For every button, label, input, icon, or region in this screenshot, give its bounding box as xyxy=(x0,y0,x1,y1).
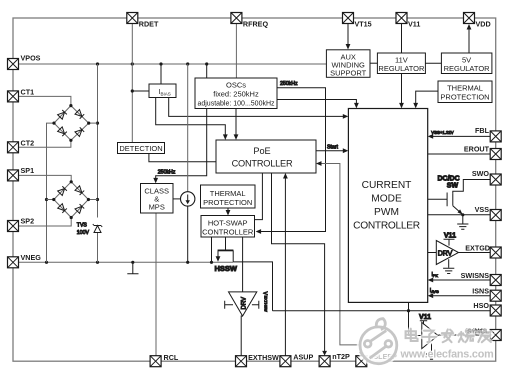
svg-text:CONTROLLER: CONTROLLER xyxy=(232,159,293,169)
wire sync buffer to SYNCL pin xyxy=(438,334,490,337)
pin EXTHSW xyxy=(236,353,280,367)
pin V11 xyxy=(396,13,420,29)
svg-text:100V: 100V xyxy=(77,230,90,236)
svg-text:EXTGD: EXTGD xyxy=(465,244,490,253)
pin SP2 xyxy=(8,217,35,232)
wire HOT-SWAP to EXTHSW driver xyxy=(242,237,244,292)
pin EXTGD xyxy=(465,244,501,259)
pin FBL xyxy=(475,126,501,142)
block 5V REGULATOR xyxy=(441,53,492,74)
wire VNEG rail xyxy=(19,261,234,263)
node RDET-IBIAS junction xyxy=(131,89,134,92)
wire PWM to DRV EXTGD xyxy=(428,252,437,254)
svg-text:SWISNS: SWISNS xyxy=(461,271,490,280)
wire bridge2 left link xyxy=(47,199,54,201)
pin VPOS xyxy=(8,54,41,70)
block OSC oscillators xyxy=(195,78,277,109)
block 11V REGULATOR xyxy=(377,53,425,74)
svg-text:PWM: PWM xyxy=(374,207,399,218)
svg-text:RFREQ: RFREQ xyxy=(243,20,269,29)
wire OSC right to PWM top arrow xyxy=(277,100,356,105)
wire current source to VNEG rail xyxy=(187,206,189,262)
node VNEG-rail junctions xyxy=(45,261,213,264)
svg-text:250kHz: 250kHz xyxy=(158,170,176,176)
wire bridge1 right link xyxy=(89,122,98,124)
pin RCL xyxy=(150,353,179,367)
block THERMAL PROTECTION top-right xyxy=(438,81,492,103)
svg-text:DRV: DRV xyxy=(438,250,453,257)
wire DRV to EXTGD pin xyxy=(459,252,491,254)
wire HSSW drain to HSO line xyxy=(233,262,272,311)
svg-text:adjustable: 100...500kHz: adjustable: 100...500kHz xyxy=(197,101,275,108)
transistor HSSW drain xyxy=(232,250,234,262)
pin SWISNS xyxy=(461,271,502,286)
pin ISNS xyxy=(472,287,501,302)
wire SP2 to bridge2 xyxy=(19,218,72,227)
svg-text:250kHz: 250kHz xyxy=(280,81,298,87)
pin SP1 xyxy=(8,166,35,181)
wire EROUT to PWM xyxy=(428,153,491,155)
pin EROUT xyxy=(464,145,501,160)
op-amp sync buffer xyxy=(422,322,438,348)
ground stub on VNEG rail xyxy=(127,262,138,273)
pin nSLEEP xyxy=(356,352,397,367)
block THERMAL PROTECTION middle xyxy=(201,185,256,208)
svg-text:CT1: CT1 xyxy=(21,88,35,97)
svg-text:HOT-SWAP: HOT-SWAP xyxy=(208,219,248,228)
transistor HSSW gate bar xyxy=(218,249,234,251)
svg-text:FBL: FBL xyxy=(475,126,490,135)
svg-text:HSSW: HSSW xyxy=(215,264,238,273)
block HOT-SWAP CONTROLLER xyxy=(201,216,255,238)
wire RFREQ to OSC xyxy=(235,24,237,79)
wire 11V regulator to PWM arrow xyxy=(401,74,403,105)
wire FBL to PWM arrow xyxy=(432,135,490,137)
wire HOT-SWAP to VNEG rail xyxy=(211,237,213,262)
svg-text:PK: PK xyxy=(433,274,439,278)
svg-text:REGULATOR: REGULATOR xyxy=(378,64,425,73)
svg-text:SP1: SP1 xyxy=(21,166,35,175)
svg-text:www.elecfans.com: www.elecfans.com xyxy=(400,349,494,361)
wire THERMAL top to PWM arrow xyxy=(416,91,438,104)
svg-text:SWO: SWO xyxy=(472,169,490,178)
svg-text:ISNS: ISNS xyxy=(472,287,489,296)
wire IBIAS out2 to PWM left arrow xyxy=(169,98,344,117)
svg-text:EXTHSW: EXTHSW xyxy=(248,353,279,362)
svg-text:V11: V11 xyxy=(419,314,431,321)
svg-text:fixed: 250kHz: fixed: 250kHz xyxy=(213,90,259,99)
svg-text:VPOS: VPOS xyxy=(21,54,41,63)
block DETECTION xyxy=(118,143,165,154)
wire 11V to 5V regulator xyxy=(425,62,441,64)
svg-text:AVG: AVG xyxy=(431,290,439,294)
svg-text:EXTHSW: EXTHSW xyxy=(263,296,267,313)
svg-text:HSO: HSO xyxy=(473,301,489,310)
wire VPOS rail to AUX xyxy=(19,63,327,65)
diode bridge 1 xyxy=(54,106,89,141)
svg-text:VDD: VDD xyxy=(476,20,491,29)
pin VNEG xyxy=(8,253,42,268)
wire bridge2 right link xyxy=(88,199,97,201)
ground below DRV xyxy=(448,259,450,268)
node VSS junction xyxy=(461,213,464,216)
wire SP1 to bridge2 xyxy=(19,175,72,181)
transistor DC/DC SW mosfet xyxy=(428,193,453,207)
svg-text:PoE: PoE xyxy=(253,146,270,156)
wire PWM bottom to sync buffer xyxy=(409,302,422,335)
svg-text:SP2: SP2 xyxy=(21,217,35,226)
svg-text:V11: V11 xyxy=(444,232,456,239)
block IBIAS current bias xyxy=(149,84,176,98)
svg-text:SUPPORT: SUPPORT xyxy=(330,68,367,77)
svg-text:CONTROLLER: CONTROLLER xyxy=(353,221,420,232)
svg-text:CT2: CT2 xyxy=(21,138,35,147)
block CURRENT MODE PWM CONTROLLER xyxy=(348,109,427,303)
svg-text:MPS: MPS xyxy=(149,203,165,212)
pin VT15 xyxy=(343,13,372,29)
wire 5V regulator to VDD arrow up xyxy=(468,28,470,53)
watermark elecfans logo and text xyxy=(360,319,494,364)
pin ASUP xyxy=(280,353,314,367)
svg-text:VSS: VSS xyxy=(475,205,490,214)
wire DETECTION to PoE xyxy=(149,154,216,162)
wire rail to OSC top xyxy=(206,64,208,78)
watermark chinese glyphs drawn as strokes xyxy=(406,329,491,343)
wire HSO line xyxy=(273,310,491,312)
svg-text:ASUP: ASUP xyxy=(293,353,313,362)
svg-text:RCL: RCL xyxy=(164,353,179,362)
svg-text:Start: Start xyxy=(327,144,339,150)
svg-text:EROUT: EROUT xyxy=(464,145,490,154)
pin SWO xyxy=(472,169,501,185)
wire SWO to DCDC switch xyxy=(453,180,490,194)
svg-text:DETECTION: DETECTION xyxy=(119,144,162,153)
svg-text:SW: SW xyxy=(447,182,459,189)
svg-text:VSS+1.32V: VSS+1.32V xyxy=(431,130,453,135)
current source I circle xyxy=(181,192,195,206)
wire CLASS to current source xyxy=(173,198,181,200)
svg-text:THERMAL: THERMAL xyxy=(210,189,246,198)
wire VPOS to current source xyxy=(187,64,189,192)
wire IBIAS left xyxy=(132,90,149,92)
svg-text:PROTECTION: PROTECTION xyxy=(440,93,489,102)
svg-text:V11: V11 xyxy=(408,20,420,29)
node VPOS-rail junctions xyxy=(96,62,208,65)
wire bridge left column to VNEG xyxy=(47,123,55,262)
node HSO junction xyxy=(407,309,410,312)
wire IBIAS out1 to PoE arrow xyxy=(156,98,226,136)
wire PoE bottom to nT2P arrow xyxy=(272,173,325,352)
block AUX WINDING SUPPORT xyxy=(326,50,370,78)
svg-text:RDET: RDET xyxy=(139,20,159,29)
wire IBIAS top xyxy=(160,64,162,84)
transistor HSSW source arrow to rail xyxy=(217,250,219,257)
diode bridge 2 xyxy=(54,182,89,218)
wire CT2 to bridge1 xyxy=(19,140,71,147)
pin SYNCL xyxy=(465,327,501,341)
wire OSC 250kHz to HOT-SWAP arrow xyxy=(260,88,326,232)
svg-text:DRV: DRV xyxy=(242,297,248,310)
pin nT2P xyxy=(319,352,350,367)
svg-text:BIAS: BIAS xyxy=(161,92,171,97)
pin VSS xyxy=(475,205,502,221)
wire V11 to 11V regulator xyxy=(401,24,403,54)
wire Start PoE to PWM arrow xyxy=(316,150,344,152)
svg-text:5V: 5V xyxy=(462,55,471,64)
pin CT1 xyxy=(8,88,35,102)
wire CT1 to bridge1 xyxy=(19,96,71,105)
wire nSLEEP net to PoE arrow xyxy=(320,164,361,356)
block CLASS & MPS xyxy=(141,184,174,214)
wire SWISNS to PWM arrow xyxy=(432,279,490,281)
wire RDET vertical to DETECTION xyxy=(131,24,133,143)
wire VPOS column x97 xyxy=(97,64,99,262)
pin VDD xyxy=(464,13,491,29)
ground below VSS node xyxy=(462,215,464,224)
svg-text:VT15: VT15 xyxy=(355,20,372,29)
wire V11 tee to DRV xyxy=(444,239,455,245)
op-amp DRV EXTHSW triangle down xyxy=(229,292,257,316)
svg-text:OSCs: OSCs xyxy=(226,80,246,89)
wire DRV side tick right VEXTHSW xyxy=(252,301,259,309)
svg-text:nT2P: nT2P xyxy=(332,352,350,361)
svg-text:11V: 11V xyxy=(395,55,408,64)
wire DRV to EXTHSW pin xyxy=(241,316,242,356)
svg-text:CURRENT: CURRENT xyxy=(362,180,412,191)
svg-text:CONTROLLER: CONTROLLER xyxy=(202,228,254,237)
wire CLASS MPS to RCL xyxy=(155,213,157,356)
wire AUX to 11V regulator xyxy=(370,62,377,64)
wire OSC bottom to PoE arrow xyxy=(235,109,237,136)
wire VSS line xyxy=(428,214,491,216)
node bridge2 left xyxy=(45,198,48,201)
wire THERMAL mid to HOT-SWAP arrow xyxy=(227,208,229,211)
pin HSO xyxy=(473,301,501,316)
wire HSSW gate xyxy=(225,237,227,250)
wire ISNS to PWM arrow xyxy=(432,295,490,297)
pin RFREQ xyxy=(231,13,269,29)
svg-text:PROTECTION: PROTECTION xyxy=(203,198,252,207)
diode TVS zener xyxy=(93,224,102,233)
svg-text:SYNCL: SYNCL xyxy=(467,329,489,336)
wire ASUP to PoE arrow up xyxy=(284,177,286,356)
pin RDET xyxy=(127,13,159,29)
op-amp DRV EXTGD xyxy=(436,241,458,265)
svg-text:MODE: MODE xyxy=(371,194,402,205)
svg-text:VNEG: VNEG xyxy=(21,253,42,262)
svg-text:TVS: TVS xyxy=(77,223,88,229)
wire VT15 to AUX arrow xyxy=(347,24,349,46)
wire PoE bottom to HOT-SWAP right xyxy=(255,173,263,220)
node bridge1 right xyxy=(96,122,99,125)
wire DRV side tick left xyxy=(225,301,233,309)
pin CT2 xyxy=(8,138,35,153)
wire V11 tee sync buffer xyxy=(420,321,427,325)
node bridge2 right xyxy=(96,198,99,201)
svg-text:THERMAL: THERMAL xyxy=(447,84,483,93)
block PoE CONTROLLER xyxy=(216,140,316,173)
ground below sync buffer xyxy=(431,344,433,354)
wire OSC bottom to CLASS arrow 250kHz xyxy=(156,109,207,180)
svg-text:REGULATOR: REGULATOR xyxy=(444,64,491,73)
